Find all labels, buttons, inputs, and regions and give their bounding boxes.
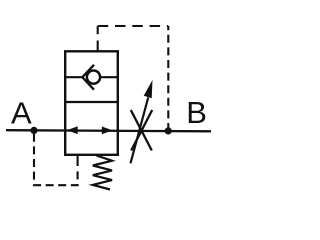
svg-text:B: B [186,95,207,130]
svg-text:A: A [11,96,32,131]
